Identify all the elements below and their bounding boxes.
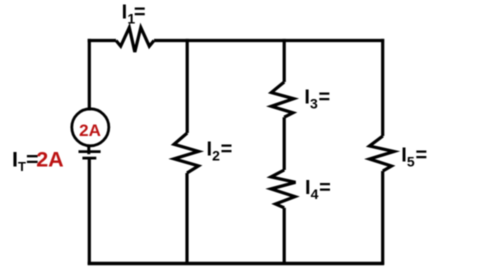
svg-text:I4=: I4=: [305, 177, 331, 202]
resistor R1: [116, 28, 154, 53]
wire: branch 3 lower: [283, 208, 286, 265]
svg-text:I5=: I5=: [401, 144, 427, 169]
current source U1 circle: [72, 109, 109, 146]
wire: top rail left segment: [88, 39, 116, 42]
resistor R5: [370, 136, 395, 171]
svg-text:I2=: I2=: [207, 138, 233, 163]
wire: branch 3 upper: [283, 39, 286, 82]
resistor R4: [271, 170, 296, 208]
wire: right branch upper: [381, 39, 384, 136]
wire: right branch lower: [381, 171, 384, 265]
wire: top rail right segment: [154, 39, 384, 42]
wire: left branch upper (top rail to source): [88, 39, 91, 111]
svg-text:I3=: I3=: [304, 86, 330, 111]
battery plate short: [82, 157, 96, 160]
battery plate long: [79, 150, 101, 153]
wire: left branch lower (battery to bottom rail): [88, 160, 91, 265]
wire: bottom rail: [88, 262, 384, 265]
wire: stub below source circle: [87, 146, 90, 154]
svg-text:IT=: IT=: [12, 148, 39, 174]
resistor R2: [174, 133, 199, 173]
wire: branch 2 upper: [186, 39, 189, 133]
svg-text:2A: 2A: [79, 121, 101, 140]
svg-text:I1=: I1=: [122, 1, 146, 26]
resistor R3: [271, 82, 293, 117]
wire: branch 3 middle (R3 to R4): [283, 117, 286, 170]
wire: branch 2 lower: [185, 173, 188, 265]
svg-text:2A: 2A: [36, 148, 63, 172]
